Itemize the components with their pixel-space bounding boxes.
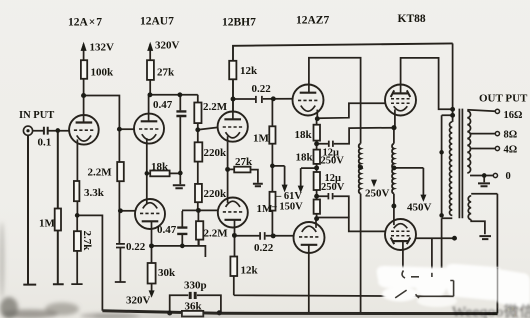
svg-text:12AU7: 12AU7 <box>140 16 174 28</box>
svg-text:132V: 132V <box>90 42 115 54</box>
svg-text:18k: 18k <box>295 129 313 141</box>
svg-text:100k: 100k <box>91 67 115 79</box>
svg-text:320V: 320V <box>155 40 180 52</box>
svg-text:2.2M: 2.2M <box>204 227 229 239</box>
svg-text:18k: 18k <box>151 161 169 173</box>
svg-text:1M: 1M <box>253 133 270 145</box>
svg-text:12AZ7: 12AZ7 <box>296 15 329 27</box>
svg-text:3.3k: 3.3k <box>84 187 105 199</box>
svg-text:330p: 330p <box>184 280 207 292</box>
svg-text:4Ω: 4Ω <box>504 145 518 156</box>
svg-text:18k: 18k <box>296 152 314 164</box>
svg-text:30k: 30k <box>158 267 176 279</box>
svg-text:250V: 250V <box>321 182 345 193</box>
svg-text:12k: 12k <box>240 65 258 77</box>
svg-text:KT88: KT88 <box>398 13 426 25</box>
svg-text:OUT PUT: OUT PUT <box>479 93 528 105</box>
svg-text:0.47: 0.47 <box>153 99 173 111</box>
svg-text:0.22: 0.22 <box>252 83 272 95</box>
svg-text:0: 0 <box>506 171 511 182</box>
svg-text:250V: 250V <box>321 156 345 167</box>
svg-text:– 150V: – 150V <box>271 202 304 213</box>
svg-text:2.2M: 2.2M <box>203 101 228 113</box>
svg-text:36k: 36k <box>185 301 203 313</box>
svg-text:8Ω: 8Ω <box>504 130 518 141</box>
svg-text:12BH7: 12BH7 <box>222 17 256 29</box>
svg-text:320V: 320V <box>126 295 151 307</box>
svg-text:0.22: 0.22 <box>126 241 146 253</box>
svg-text:450V: 450V <box>407 202 432 214</box>
svg-text:2.2M: 2.2M <box>88 167 113 179</box>
svg-text:220k: 220k <box>204 188 228 200</box>
svg-text:– 61V: – 61V <box>275 191 302 202</box>
svg-text:IN PUT: IN PUT <box>19 110 54 121</box>
svg-text:2.7k: 2.7k <box>81 231 93 252</box>
svg-text:27k: 27k <box>235 156 253 168</box>
svg-text:12A × 7: 12A × 7 <box>68 17 102 29</box>
svg-text:0.47: 0.47 <box>157 224 177 236</box>
svg-text:0.1: 0.1 <box>38 137 52 149</box>
svg-text:27k: 27k <box>157 67 175 79</box>
svg-text:12k: 12k <box>241 265 259 277</box>
svg-text:250V: 250V <box>365 188 390 200</box>
svg-text:16Ω: 16Ω <box>504 110 523 121</box>
svg-text:1M: 1M <box>39 218 56 230</box>
svg-text:220k: 220k <box>204 147 228 159</box>
svg-text:0.22: 0.22 <box>254 242 274 254</box>
